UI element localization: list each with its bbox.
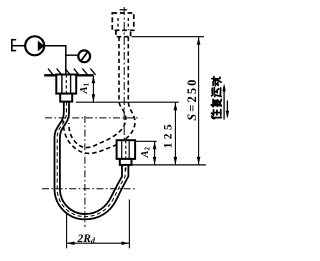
moving leg centerline bbox=[123, 7, 125, 140]
dashed tube (upper position) outer wall bbox=[63, 37, 135, 154]
solid tube outer wall bbox=[55, 102, 129, 220]
gauge circle bbox=[78, 50, 90, 62]
extension line top (S top) bbox=[132, 36, 204, 38]
dashed tube (upper position) inner wall bbox=[69, 37, 126, 148]
wire to gauge bbox=[66, 54, 79, 56]
A2 fitting block bbox=[117, 140, 136, 159]
bend vertical centerline bbox=[84, 116, 86, 227]
wire E to motor bbox=[12, 45, 25, 47]
top fitting inner walls (dashed) bbox=[118, 18, 128, 30]
extension line bottom (S/125/A2 bottom) bbox=[130, 164, 206, 166]
往 bbox=[212, 110, 222, 119]
bend horizontal centerline bbox=[42, 188, 137, 190]
left gland centerline bbox=[65, 75, 67, 94]
top fitting block (dashed) bbox=[112, 13, 134, 30]
motor circle U1 bbox=[25, 36, 44, 55]
dim line S=250 bbox=[198, 37, 200, 165]
dim line A2 bbox=[154, 141, 156, 165]
A1 arrows bbox=[92, 76, 96, 84]
svg-text:S=250: S=250 bbox=[185, 77, 199, 120]
extension line A2 top bbox=[135, 140, 157, 142]
复 bbox=[211, 99, 221, 106]
A2 inner tube walls bbox=[122, 140, 130, 159]
2Rd left extension line bbox=[66, 214, 68, 249]
svg-text:125: 125 bbox=[162, 121, 174, 148]
left gland block bbox=[56, 75, 76, 94]
drive symbol E terminal bbox=[11, 39, 16, 51]
2Rd right extension line bbox=[128, 200, 130, 249]
label 往复运动 (hand-drawn glyphs, rotated column) bbox=[211, 77, 221, 119]
motor triangle bbox=[38, 41, 45, 52]
gauge slash bbox=[81, 52, 88, 61]
left gland neck bbox=[60, 94, 72, 102]
dimension A1 extension (part of baseline) and dim line bbox=[92, 75, 94, 102]
horizontal centerline at mid position bbox=[45, 117, 140, 119]
wire motor to crank bbox=[44, 46, 66, 74]
reciprocating arrow down bbox=[226, 101, 228, 117]
top fitting neck (dashed) bbox=[116, 30, 131, 36]
fixed support hatching baseline bbox=[44, 74, 93, 76]
A2 neck bbox=[120, 159, 132, 165]
A2 centerline bbox=[125, 140, 127, 172]
reciprocating arrow up bbox=[223, 86, 225, 120]
solid tube centerline bbox=[57, 102, 125, 217]
2Rd dim line bbox=[67, 242, 130, 244]
solid tube inner wall bbox=[60, 102, 122, 214]
mid extension line (125 top / fixture bottom level) bbox=[76, 101, 179, 103]
hatch ticks bbox=[48, 69, 96, 75]
动 bbox=[212, 77, 221, 86]
left gland inner tube walls bbox=[62, 75, 71, 94]
dim line 125 bbox=[174, 102, 176, 165]
top fitting centerline cross tick bbox=[120, 9, 128, 11]
运 bbox=[212, 88, 221, 97]
